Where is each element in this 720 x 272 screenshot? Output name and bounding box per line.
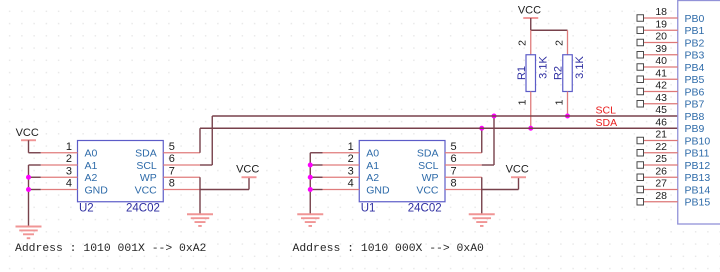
connector pin 20 / PB2: [637, 31, 705, 50]
wire U1 pin2 to tie line: [310, 164, 322, 166]
svg-text:WP: WP: [422, 172, 439, 184]
IC U1 24C02 EEPROM: [359, 141, 445, 202]
svg-text:5: 5: [451, 141, 457, 153]
wire U2 pin6 riser to SCL bus: [211, 116, 213, 165]
svg-text:18: 18: [655, 6, 667, 18]
svg-text:28: 28: [655, 190, 667, 202]
wire U1 pin6 extension: [482, 164, 494, 166]
svg-text:PB12: PB12: [685, 160, 711, 172]
connector pin 26 / PB13: [637, 165, 710, 184]
connector pin 39 / PB3: [637, 43, 705, 62]
svg-text:1: 1: [348, 141, 354, 153]
svg-text:SDA: SDA: [417, 148, 439, 160]
svg-text:7: 7: [169, 165, 175, 177]
svg-text:A0: A0: [366, 148, 379, 160]
pin 7 of U1 (lead): [445, 176, 482, 178]
svg-text:7: 7: [451, 165, 457, 177]
power symbol VCC above R1/R2: [518, 5, 541, 19]
svg-text:SDA: SDA: [596, 117, 618, 129]
svg-text:WP: WP: [140, 172, 157, 184]
svg-text:2: 2: [66, 153, 72, 165]
pin 8 of U2 (lead): [163, 189, 200, 191]
svg-text:45: 45: [655, 104, 667, 116]
pin 5 of U1 (lead): [445, 152, 482, 154]
svg-text:U2: U2: [79, 203, 94, 215]
svg-text:42: 42: [655, 80, 667, 92]
svg-text:4: 4: [348, 178, 354, 190]
svg-text:VCC: VCC: [506, 164, 529, 176]
svg-text:PB15: PB15: [685, 197, 711, 209]
connector pin 18 / PB0: [637, 6, 705, 25]
ground below U1 WP: [469, 214, 495, 226]
ground below U2 WP: [187, 214, 213, 226]
svg-text:PB0: PB0: [685, 13, 705, 25]
svg-text:PB1: PB1: [685, 25, 705, 37]
wire U1 pin6 riser to SCL bus: [493, 116, 495, 165]
svg-text:SDA: SDA: [135, 148, 157, 160]
connector pin 19 / PB1: [637, 18, 705, 37]
svg-text:A2: A2: [366, 172, 379, 184]
svg-text:6: 6: [451, 153, 457, 165]
svg-text:27: 27: [655, 178, 667, 190]
svg-text:PB7: PB7: [685, 99, 705, 111]
wire U1 pin1 to tie line: [310, 152, 322, 154]
svg-text:R1: R1: [516, 66, 528, 80]
wire U2 pin4 to tie line: [29, 189, 41, 191]
svg-text:PB4: PB4: [685, 62, 705, 74]
junction U2 tie at pin 4: [26, 187, 31, 192]
wire U1 pin4 to tie line: [310, 189, 322, 191]
pin 1 of U1 (lead): [323, 152, 360, 154]
connector pin 28 / PB15: [637, 190, 710, 209]
svg-text:1: 1: [517, 99, 529, 105]
wire U1 pin8 to VCC: [482, 189, 519, 191]
svg-text:Address : 1010 000X --> 0xA0: Address : 1010 000X --> 0xA0: [293, 243, 485, 255]
junction U1 SCL riser on bus: [492, 114, 497, 119]
svg-text:A1: A1: [366, 160, 379, 172]
svg-text:VCC: VCC: [135, 184, 158, 196]
svg-text:R2: R2: [553, 66, 565, 80]
wire U1 pin5 riser to SDA bus: [481, 128, 483, 153]
svg-text:4: 4: [66, 178, 72, 190]
wire VCC stub to resistor top rail: [530, 18, 532, 30]
connector pin 41 / PB5: [637, 67, 705, 86]
ground below U2 address pins: [16, 227, 42, 239]
wire SDA bus: [200, 127, 678, 129]
svg-text:39: 39: [655, 43, 667, 55]
svg-text:PB9: PB9: [685, 123, 705, 135]
svg-text:2: 2: [517, 40, 529, 46]
pin 8 of U1 (lead): [445, 189, 482, 191]
resistor R2 3.1K: [563, 30, 573, 116]
pin 3 of U2 (lead): [41, 176, 78, 178]
svg-text:SCL: SCL: [418, 160, 439, 172]
connector pin 42 / PB6: [637, 80, 705, 99]
junction U1 tie at pin 3: [308, 175, 313, 180]
wire U2 pin1 to VCC riser: [29, 152, 41, 154]
svg-text:3.1K: 3.1K: [537, 56, 549, 79]
svg-text:41: 41: [655, 67, 667, 79]
svg-text:U1: U1: [361, 203, 376, 215]
pin 5 of U2 (lead): [163, 152, 200, 154]
svg-text:3.1K: 3.1K: [574, 56, 586, 79]
svg-text:VCC: VCC: [518, 5, 541, 17]
svg-text:A2: A2: [85, 172, 98, 184]
svg-text:46: 46: [655, 116, 667, 128]
pin 6 of U1 (lead): [445, 164, 482, 166]
svg-text:VCC: VCC: [16, 127, 39, 139]
junction U2 tie at pin 3: [26, 175, 31, 180]
connector pin 45 / PB8: [655, 104, 704, 123]
svg-text:VCC: VCC: [416, 184, 439, 196]
wire SCL bus: [212, 115, 678, 117]
junction R2 on SCL bus: [565, 114, 570, 119]
svg-text:19: 19: [655, 18, 667, 30]
wire U2 pin7 WP drop to ground: [199, 177, 201, 214]
power symbol VCC at U1 pin 8: [506, 164, 529, 178]
svg-text:5: 5: [169, 141, 175, 153]
resistor R1 3.1K: [526, 30, 536, 128]
svg-text:PB14: PB14: [685, 184, 711, 196]
svg-text:8: 8: [451, 178, 457, 190]
wire VCC stub above U1 pin8: [518, 177, 520, 189]
connector pin 22 / PB11: [637, 141, 710, 160]
pin 6 of U2 (lead): [163, 164, 200, 166]
wire U2 pin8 to VCC: [200, 189, 249, 191]
wire U2 pin2 to tie line: [29, 164, 41, 166]
wire U1 pin3 to tie line: [310, 176, 322, 178]
IC U2 24C02 EEPROM: [78, 141, 164, 202]
connector pin 43 / PB7: [637, 92, 705, 111]
connector pin 25 / PB12: [637, 153, 710, 172]
pin 4 of U1 (lead): [323, 189, 360, 191]
junction U1 tie at pin 4: [308, 187, 313, 192]
pin 2 of U1 (lead): [323, 164, 360, 166]
svg-text:1: 1: [66, 141, 72, 153]
svg-text:22: 22: [655, 141, 667, 153]
pin 2 of U2 (lead): [41, 164, 78, 166]
connector pin 21 / PB10: [637, 129, 710, 148]
svg-text:1: 1: [553, 99, 565, 105]
wire resistor top rail R1-R2: [531, 29, 568, 31]
connector pin 40 / PB4: [637, 55, 705, 74]
wire VCC stub above U2 pin8: [248, 177, 250, 189]
svg-text:40: 40: [655, 55, 667, 67]
wire U2 pin6 extension: [200, 164, 212, 166]
svg-text:PB6: PB6: [685, 86, 705, 98]
svg-text:24C02: 24C02: [126, 203, 160, 215]
wire VCC stub down to U2 pin 1: [28, 140, 30, 153]
power symbol VCC at U2 pin A0: [16, 127, 39, 140]
pin 3 of U1 (lead): [323, 176, 360, 178]
svg-text:SCL: SCL: [596, 105, 617, 117]
svg-text:A0: A0: [85, 148, 98, 160]
svg-text:21: 21: [655, 129, 667, 141]
wire U2 pin3 to tie line: [29, 176, 41, 178]
svg-text:2: 2: [348, 153, 354, 165]
pin 4 of U2 (lead): [41, 189, 78, 191]
wire U1 ground tie vertical (pins 1-4): [309, 153, 311, 215]
wire U2 pin5 riser to SDA bus: [199, 128, 201, 153]
svg-text:43: 43: [655, 92, 667, 104]
svg-text:PB11: PB11: [685, 148, 710, 160]
svg-text:26: 26: [655, 165, 667, 177]
svg-text:3: 3: [66, 165, 72, 177]
svg-text:3: 3: [348, 165, 354, 177]
wire U1 pin7 WP drop to ground: [481, 177, 483, 214]
pin 1 of U2 (lead): [41, 152, 78, 154]
junction U1 tie at pin 2: [308, 163, 313, 168]
svg-text:PB2: PB2: [685, 37, 705, 49]
connector pin 46 / PB9: [655, 116, 704, 135]
power symbol VCC at U2 pin 8: [236, 164, 259, 178]
svg-text:GND: GND: [85, 184, 109, 196]
svg-text:2: 2: [553, 40, 565, 46]
pin 7 of U2 (lead): [163, 176, 200, 178]
svg-text:6: 6: [169, 153, 175, 165]
svg-text:PB10: PB10: [685, 135, 711, 147]
connector pin 27 / PB14: [637, 178, 710, 197]
svg-text:24C02: 24C02: [408, 203, 442, 215]
ground below U1 address pins: [297, 214, 323, 226]
connector port box PB0-PB15: [678, 1, 720, 225]
svg-text:GND: GND: [366, 184, 390, 196]
svg-text:8: 8: [169, 178, 175, 190]
svg-text:25: 25: [655, 153, 667, 165]
svg-text:Address : 1010 001X --> 0xA2: Address : 1010 001X --> 0xA2: [15, 243, 207, 255]
svg-text:PB5: PB5: [685, 74, 705, 86]
svg-text:20: 20: [655, 31, 667, 43]
svg-text:PB8: PB8: [685, 111, 705, 123]
svg-text:A1: A1: [85, 160, 98, 172]
wire U2 ground tie vertical (pins 2-4): [28, 165, 30, 227]
junction R1 on SDA bus: [528, 126, 533, 131]
svg-text:PB13: PB13: [685, 172, 711, 184]
junction U1 SDA riser on bus: [479, 126, 484, 131]
svg-text:PB3: PB3: [685, 50, 705, 62]
svg-text:VCC: VCC: [236, 164, 259, 176]
svg-text:SCL: SCL: [136, 160, 157, 172]
